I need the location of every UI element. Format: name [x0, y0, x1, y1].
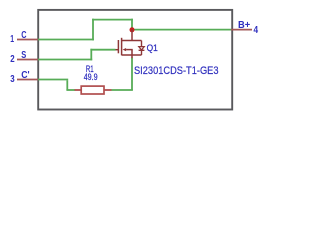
svg-text:C': C' [21, 70, 29, 81]
resistor R1 left lead [75, 89, 82, 91]
wire net C vertical riser [92, 19, 94, 41]
svg-text:4: 4 [254, 25, 259, 36]
svg-text:3: 3 [10, 74, 15, 85]
svg-text:49.9: 49.9 [84, 72, 98, 83]
body diode cathode link [141, 50, 143, 55]
module body outline [38, 10, 232, 110]
wire net S vertical riser [90, 49, 92, 61]
svg-text:1: 1 [10, 34, 14, 45]
wire resistor to source [112, 89, 133, 91]
transistor Q1 channel bar [121, 38, 123, 56]
wire net S gate run [90, 49, 115, 51]
transistor Q1 drain pin [131, 30, 133, 41]
node junction dot [130, 27, 135, 32]
pin 1 stub [17, 39, 38, 41]
resistor R1 body [81, 86, 104, 94]
svg-text:B+: B+ [238, 20, 250, 31]
transistor Q1 gate bar [117, 40, 119, 53]
svg-text:S: S [21, 50, 26, 61]
svg-text:C: C [21, 30, 26, 41]
wire net C top run [92, 19, 133, 21]
resistor R1 right lead [104, 89, 112, 91]
wire net B+ run [132, 29, 231, 31]
wire net C horizontal [38, 39, 94, 41]
wire net S horizontal [38, 59, 92, 61]
svg-text:Q1: Q1 [147, 43, 158, 54]
transistor Q1 bulk stub [126, 49, 133, 51]
transistor Q1 bulk arrow [123, 48, 127, 51]
transistor Q1 source stub [122, 54, 142, 56]
wire net C drop to node [131, 19, 133, 30]
svg-text:2: 2 [10, 54, 15, 65]
body diode cathode bar [139, 49, 145, 51]
transistor Q1 drain stub [122, 40, 142, 42]
transistor Q1 gate lead [116, 49, 120, 51]
body diode anode link [141, 41, 143, 47]
pin 2 stub [17, 59, 38, 61]
body diode triangle [139, 47, 144, 50]
pin 3 stub [17, 79, 38, 81]
transistor Q1 source pin [131, 55, 133, 58]
wire source vertical [131, 58, 133, 90]
pin 4 stub [231, 29, 252, 31]
wire net C' vertical drop [66, 80, 68, 90]
wire net C' to resistor [66, 89, 75, 91]
svg-text:SI2301CDS-T1-GE3: SI2301CDS-T1-GE3 [134, 65, 219, 77]
transistor Q1 bulk to source [131, 50, 133, 55]
wire net C' horizontal [38, 79, 68, 81]
